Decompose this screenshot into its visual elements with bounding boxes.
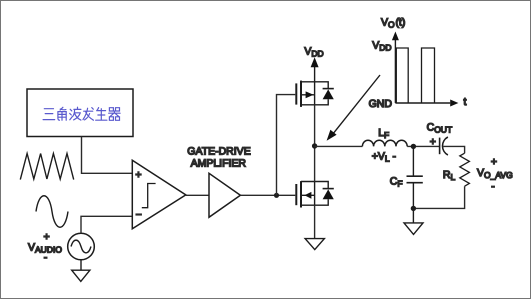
resistor RL — [460, 153, 470, 186]
svg-text:LF: LF — [378, 127, 389, 140]
svg-text:t: t — [464, 96, 467, 108]
label 三角波发生器 — [43, 107, 120, 120]
wire gate riser to Q1 — [277, 95, 296, 196]
svg-text:CF: CF — [390, 175, 403, 188]
svg-text:AMPLIFIER: AMPLIFIER — [191, 158, 247, 170]
source VAUDIO — [28, 231, 94, 263]
node switch output — [312, 143, 317, 148]
svg-text:-: - — [44, 251, 48, 263]
waveform plot VO(t) — [392, 32, 459, 107]
svg-text:VO_AVG: VO_AVG — [477, 167, 513, 180]
svg-text:−: − — [136, 209, 142, 221]
annotation arrow from waveform to switch node — [327, 75, 380, 141]
ground (Q2 source) — [305, 239, 324, 250]
wire Q1 source to switch node — [314, 105, 316, 146]
node LC filter — [411, 144, 416, 149]
svg-text:VDD: VDD — [372, 40, 391, 53]
wire switch node to inductor — [315, 145, 363, 147]
wire source to comparator minus input — [81, 216, 132, 233]
svg-text:VDD: VDD — [304, 45, 323, 58]
svg-text:VO(t): VO(t) — [381, 16, 405, 29]
gate-drive amplifier U2 — [187, 146, 250, 218]
body diode D1 — [315, 82, 334, 105]
wire comparator to amplifier — [186, 194, 209, 196]
transistor Q1 high-side MOSFET — [296, 81, 314, 107]
wire amplifier to gates — [240, 194, 295, 196]
wire COUT to RL — [443, 146, 464, 153]
svg-text:+: + — [491, 156, 497, 168]
svg-text:+: + — [135, 169, 141, 181]
ground (audio source) — [72, 260, 90, 282]
capacitor COUT — [440, 137, 448, 155]
ground (CF) — [404, 208, 423, 234]
capacitor CF — [407, 146, 423, 208]
wire inductor to COUT — [407, 145, 439, 147]
comparator U1 — [132, 160, 186, 229]
triangle-wave generator box — [27, 89, 133, 137]
svg-text:+: + — [44, 231, 50, 243]
svg-text:-: - — [491, 180, 495, 192]
sine wave symbol — [36, 196, 68, 228]
node gate junction — [274, 193, 279, 198]
wire box to comparator plus input — [82, 137, 133, 174]
svg-text:GATE-DRIVE: GATE-DRIVE — [187, 146, 250, 158]
wire RL bottom return — [413, 186, 464, 208]
node CF ground — [411, 206, 416, 211]
svg-text:GND: GND — [369, 98, 393, 110]
VDD supply — [311, 57, 319, 82]
svg-text:RL: RL — [443, 169, 456, 182]
svg-text:COUT: COUT — [427, 122, 453, 135]
transistor Q2 low-side MOSFET — [296, 181, 314, 207]
wire switch node to Q2 drain — [314, 146, 316, 182]
wire Q2 source to ground — [314, 205, 316, 238]
inductor LF — [362, 140, 407, 146]
svg-text:+: + — [430, 136, 436, 148]
triangle wave symbol — [20, 154, 73, 180]
svg-text:+VL -: +VL - — [372, 151, 397, 164]
body diode D2 — [315, 182, 334, 206]
